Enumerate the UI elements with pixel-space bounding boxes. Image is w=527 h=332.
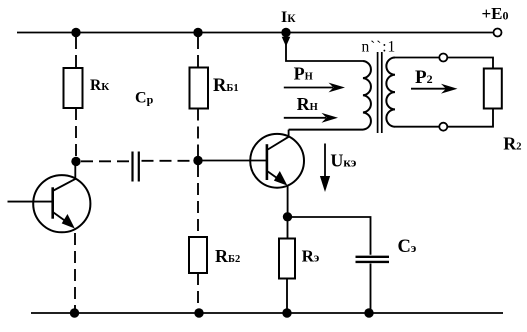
wire Q2 emitter — [268, 172, 284, 184]
transistor Q1 emitter arrowhead — [62, 214, 75, 229]
transistor Q1 circle — [33, 175, 90, 232]
wire secondary bottom lead — [395, 126, 439, 128]
node junction dot bottom rail RB2 — [194, 308, 203, 317]
wire dashed RB1 top lead — [197, 37, 199, 68]
wire emitter node to RE — [287, 217, 289, 239]
transformer T1 primary winding — [289, 61, 371, 130]
wire CE bottom lead — [370, 264, 372, 314]
wire Q2 collector — [268, 130, 289, 150]
terminal secondary top open circle — [439, 54, 447, 62]
wire dashed RB2 bottom lead — [197, 273, 199, 309]
wire top supply rail — [17, 32, 494, 34]
node junction dot bottom rail CE — [364, 308, 373, 317]
transistor Q1 base bar — [51, 187, 54, 218]
wire Q1 collector — [54, 161, 76, 190]
arrow P2 — [411, 88, 449, 90]
arrow PH — [284, 87, 333, 89]
wire emitter node to CE — [288, 217, 371, 255]
node junction dot top rail at RB1 — [193, 28, 202, 37]
arrowhead IK current down — [282, 37, 291, 47]
wire Q1 emitter — [54, 213, 73, 226]
transformer T1 secondary winding — [386, 58, 395, 127]
arrow UKE voltage — [324, 144, 326, 179]
wire IK drop and to primary — [286, 36, 363, 61]
svg-text:Ср: Ср — [135, 90, 154, 107]
terminal secondary bottom open circle — [439, 123, 447, 131]
svg-text:n``:1: n``:1 — [362, 39, 397, 56]
node junction dot bottom rail RE — [282, 308, 291, 317]
wire dashed Cp right — [142, 160, 195, 162]
resistor RK — [64, 68, 83, 108]
wire secondary top lead — [395, 57, 439, 59]
wire base of Q2 — [202, 160, 267, 162]
transistor Q2 circle — [250, 134, 304, 188]
wire Q2 emitter down — [287, 185, 289, 217]
wire dashed Q1 emitter to bottom rail — [74, 233, 76, 309]
arrow RH — [284, 117, 326, 119]
capacitor Cp — [133, 152, 139, 182]
transistor Q2 base bar — [266, 144, 269, 180]
resistor RB1 — [190, 68, 209, 109]
node junction dot bottom rail left — [70, 308, 79, 317]
transformer core lines — [377, 52, 379, 133]
wire Q1 base lead — [8, 201, 53, 203]
capacitor CE — [356, 257, 390, 262]
wire RE bottom lead — [286, 279, 288, 314]
node junction dot emitter VT2 — [283, 212, 292, 221]
resistor R2 — [484, 69, 502, 109]
resistor RB2 — [189, 237, 207, 273]
node junction dot left of Cp — [71, 157, 80, 166]
node junction dot top rail at IK — [281, 28, 290, 37]
wire secondary top to R2 — [447, 58, 493, 69]
wire bottom rail — [31, 312, 503, 314]
wire R2 bottom to secondary — [447, 109, 493, 127]
node junction dot top rail at RK — [71, 28, 80, 37]
node junction dot base of VT2 — [193, 156, 202, 165]
wire dashed Cp left — [81, 160, 130, 162]
terminal +E0 open circle — [494, 29, 502, 37]
transistor Q2 emitter arrowhead — [274, 171, 288, 186]
wire dashed RB1 bottom lead — [197, 109, 199, 157]
wire dashed RK bottom lead — [75, 108, 77, 158]
wire dashed RK top lead — [75, 37, 77, 68]
resistor RE — [279, 239, 295, 279]
wire dashed RB2 top lead — [197, 165, 199, 237]
